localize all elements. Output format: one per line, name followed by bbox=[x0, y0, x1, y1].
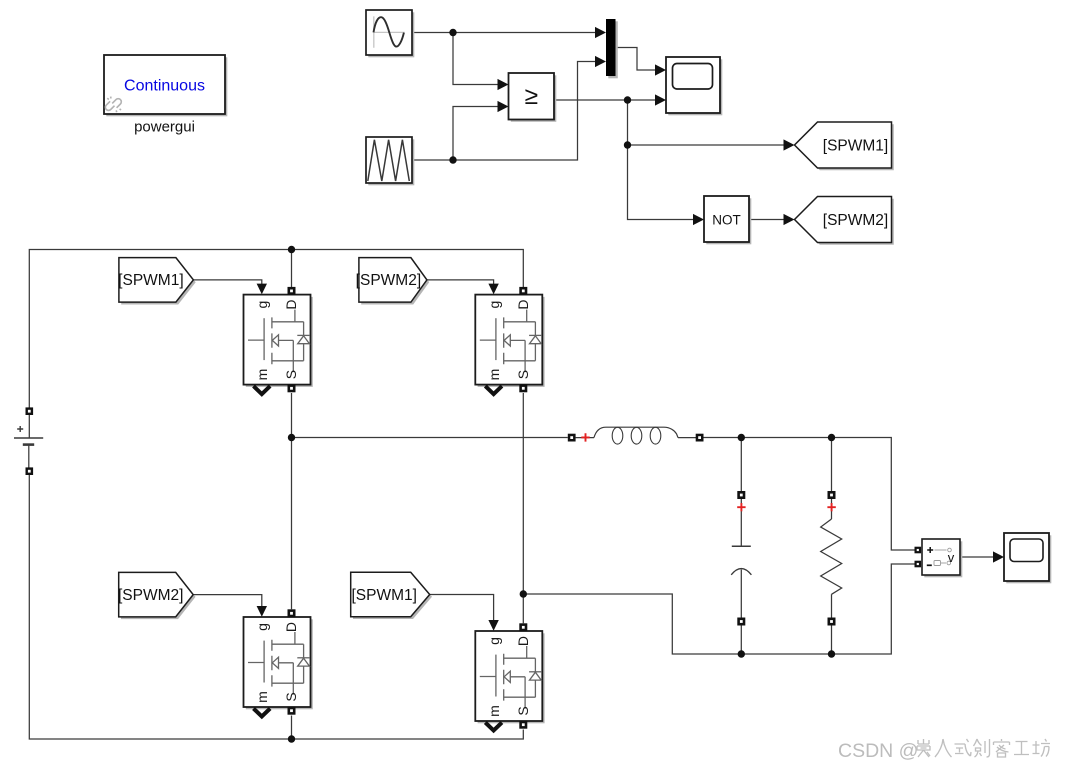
wire: voltmeter output to scope1 bbox=[960, 556, 994, 558]
junction negative rail bbox=[288, 735, 295, 742]
mosfet Q2 (upper right) bbox=[475, 284, 544, 395]
svg-text:g: g bbox=[486, 637, 502, 645]
svg-text:D: D bbox=[283, 300, 299, 310]
arrowhead into mux input 2 bbox=[595, 56, 606, 67]
relational operator >= bbox=[509, 73, 557, 122]
wire: branch Q3 source down to negative rail bbox=[291, 716, 293, 740]
svg-text:g: g bbox=[254, 301, 270, 309]
wire: right bridge midpoint Q2 source to Q4 drain bbox=[522, 393, 524, 623]
svg-text:m: m bbox=[486, 369, 502, 381]
svg-text:CSDN @: CSDN @ bbox=[838, 740, 918, 762]
arrowhead into comparator input 2 bbox=[498, 101, 509, 112]
svg-text:S: S bbox=[515, 706, 531, 715]
svg-text:D: D bbox=[515, 300, 531, 310]
svg-text:g: g bbox=[254, 623, 270, 631]
junction load top at capacitor bbox=[738, 434, 745, 441]
arrowhead into scope input 2 bbox=[655, 94, 666, 105]
mosfet Q1 (upper left) bbox=[244, 284, 313, 395]
wire: from SPWM2 tag to Q2 gate bbox=[427, 280, 494, 284]
junction load bottom at resistor bbox=[828, 650, 835, 657]
svg-text:D: D bbox=[283, 622, 299, 632]
powergui block bbox=[104, 55, 227, 116]
junction SPWM signal bbox=[624, 96, 631, 103]
svg-text:≥: ≥ bbox=[525, 83, 538, 110]
junction SPWM to NOT bbox=[624, 141, 631, 148]
from tag SPWM2 (Q3 gate) bbox=[118, 572, 196, 619]
wire: positive DC rail from battery to Q1/Q2 drains bbox=[29, 250, 523, 408]
arrowhead into goto SPWM1 bbox=[784, 139, 795, 150]
svg-text:powergui: powergui bbox=[134, 119, 195, 136]
goto tag SPWM2 bbox=[795, 197, 894, 245]
svg-text:S: S bbox=[283, 370, 299, 379]
DC voltage source battery bbox=[14, 407, 43, 475]
junction load top at resistor bbox=[828, 434, 835, 441]
arrowhead into goto SPWM2 bbox=[784, 214, 795, 225]
junction load bottom at capacitor bbox=[738, 650, 745, 657]
wire: negative DC rail from battery to Q3/Q4 sources bbox=[29, 475, 523, 740]
goto tag SPWM1 bbox=[795, 122, 894, 170]
wire: right midpoint to load return and voltmeter minus bbox=[523, 564, 915, 654]
resistor R load bbox=[821, 438, 842, 655]
svg-text:S: S bbox=[283, 692, 299, 701]
mosfet Q3 (lower left) bbox=[244, 606, 313, 717]
wire: inductor output to load top and voltmeter plus bbox=[703, 438, 915, 551]
wire: branch from sine junction to comparator input 1 bbox=[453, 33, 499, 85]
inductor L bbox=[568, 427, 704, 444]
svg-text:[SPWM2]: [SPWM2] bbox=[356, 272, 421, 289]
mosfet Q4 (lower right) bbox=[475, 620, 544, 731]
wire: SPWM node down to goto SPWM1 bbox=[628, 100, 786, 145]
wire: sine to mux input 1 bbox=[412, 32, 597, 34]
svg-text:Continuous: Continuous bbox=[124, 78, 205, 95]
arrowhead into mux input 1 bbox=[595, 27, 606, 38]
svg-text:D: D bbox=[515, 636, 531, 646]
mux bbox=[606, 19, 618, 78]
svg-text:v: v bbox=[948, 550, 955, 565]
from tag SPWM1 (Q4 gate) bbox=[351, 572, 432, 619]
watermark CSDN bbox=[838, 740, 918, 762]
junction left bridge midpoint bbox=[288, 434, 295, 441]
svg-text:[SPWM1]: [SPWM1] bbox=[118, 272, 183, 289]
scope1 (output voltage) bbox=[1004, 533, 1051, 583]
junction triangle branch bbox=[449, 156, 456, 163]
svg-text:m: m bbox=[254, 369, 270, 381]
voltage measurement block bbox=[915, 539, 963, 577]
svg-text:[SPWM1]: [SPWM1] bbox=[823, 137, 888, 154]
wire: comparator output to scope input 2 bbox=[554, 99, 656, 101]
sine wave source bbox=[366, 10, 414, 57]
wire: branch of positive rail down to Q1 drain bbox=[291, 250, 293, 288]
wire: from SPWM1 tag to Q4 gate bbox=[430, 595, 494, 621]
NOT logical operator bbox=[704, 196, 751, 244]
junction sine branch bbox=[449, 29, 456, 36]
wire: branch from triangle junction to comparator input 2 bbox=[453, 107, 499, 161]
svg-text:[SPWM2]: [SPWM2] bbox=[823, 212, 888, 229]
arrowhead into scope input 1 bbox=[655, 64, 666, 75]
wire: from SPWM1 tag to Q1 gate bbox=[193, 280, 261, 284]
svg-text:[SPWM1]: [SPWM1] bbox=[351, 587, 416, 604]
junction right bridge midpoint bbox=[520, 590, 527, 597]
arrowhead into scope1 bbox=[993, 551, 1004, 562]
watermark chinese glyphs bbox=[917, 739, 1050, 757]
wire: SPWM node down to NOT input bbox=[628, 145, 695, 220]
svg-text:S: S bbox=[515, 370, 531, 379]
arrowhead into NOT bbox=[693, 214, 704, 225]
capacitor C bbox=[731, 438, 751, 655]
svg-text:m: m bbox=[486, 705, 502, 717]
wire: mux output to scope input 1 bbox=[616, 48, 657, 71]
wire: triangle to mux input 2 bbox=[412, 62, 597, 161]
wire: left midpoint to inductor bbox=[292, 437, 568, 439]
wire: NOT output to goto SPWM2 bbox=[749, 219, 785, 221]
svg-text:[SPWM2]: [SPWM2] bbox=[118, 587, 183, 604]
arrowhead into comparator input 1 bbox=[498, 79, 509, 90]
svg-text:NOT: NOT bbox=[712, 212, 741, 227]
triangle wave source bbox=[366, 137, 414, 185]
svg-text:g: g bbox=[486, 301, 502, 309]
junction positive rail bbox=[288, 246, 295, 253]
wire: left bridge midpoint Q1 source to Q3 drain bbox=[291, 393, 293, 609]
from tag SPWM2 (Q2 gate) bbox=[356, 258, 430, 305]
from tag SPWM1 (Q1 gate) bbox=[118, 258, 196, 305]
svg-text:m: m bbox=[254, 691, 270, 703]
wire: from SPWM2 tag to Q3 gate bbox=[193, 595, 262, 607]
scope bbox=[666, 57, 722, 115]
